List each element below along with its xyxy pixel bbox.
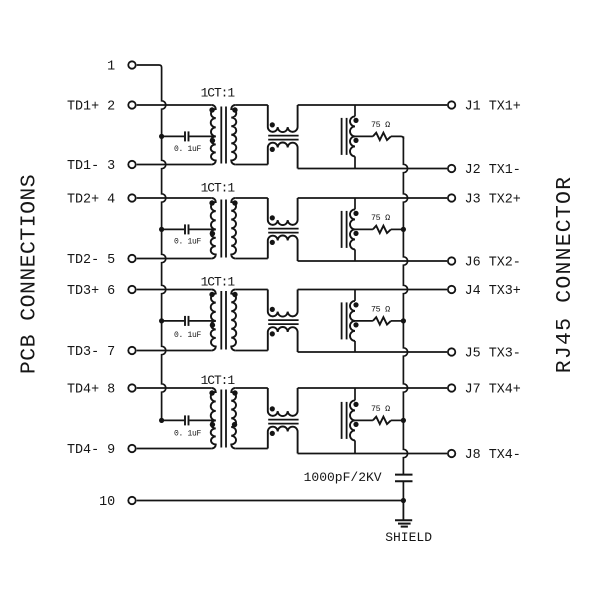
capacitor C5 1000pF/2KV [395,474,413,476]
transformer T1 secondary phase dot [232,107,237,112]
wire choke L1 to TX1+ pin [298,104,447,106]
transformer T4 secondary winding [231,388,236,449]
transformer T1 primary center-tap dot [210,138,215,143]
svg-text:0. 1uF: 0. 1uF [174,238,202,247]
wire rail to capacitor C1 [162,135,185,137]
pin J1 terminal [448,101,455,108]
svg-text:TD3- 7: TD3- 7 [67,345,115,360]
svg-text:1000pF/2KV: 1000pF/2KV [304,470,382,485]
termination winding W1 phase dot upper [353,118,358,123]
capacitor C4 0.1uF [184,415,186,425]
svg-text:0. 1uF: 0. 1uF [174,331,202,340]
transformer T4 secondary phase dot [232,390,237,395]
wire T2 secondary top to choke L2 [235,197,268,199]
center-tap bias rail (vertical, from pin 1) [162,68,166,421]
wire TD1+ pin to transformer T1 primary top [137,104,212,106]
wire pin 10 to shield node [137,500,404,502]
wire resistor R2 to termination rail [391,228,404,230]
wire choke L3 to TX3- pin [298,351,447,353]
termination winding W3 phase dot lower [353,322,358,327]
svg-text:J1 TX1+: J1 TX1+ [465,100,521,115]
transformer T4 secondary center-tap dot [232,422,237,427]
choke L2 bottom winding phase dot [270,240,275,245]
wire W3 center tap to resistor R3 [355,320,373,322]
transformer T2 primary phase dot [209,200,214,205]
svg-text:1CT:1: 1CT:1 [201,181,236,196]
choke L4 bottom winding phase dot [270,431,275,436]
svg-text:J3 TX2+: J3 TX2+ [465,193,521,208]
transformer T4 primary winding [211,388,216,449]
wire capacitor C3 to T3 primary center tap [189,320,215,322]
wire T1 secondary bottom to choke L1 [235,164,268,166]
left side caption PCB CONNECTIONS [17,174,41,374]
transformer T2 secondary winding [231,198,236,259]
transformer T4 primary phase dot [209,390,214,395]
wire TD3- pin to transformer T3 primary bottom [137,350,212,352]
pin 10 terminal [128,497,135,504]
wire T3 secondary top to choke L3 [235,289,268,291]
svg-text:TD4+ 8: TD4+ 8 [67,383,115,398]
termination winding W4 [350,400,355,440]
termination winding W4 lead from TX4+ line [354,388,356,400]
termination winding W2 core [341,211,343,248]
transformer T2 core [220,200,222,258]
wire TD2+ pin to transformer T2 primary top [137,197,212,199]
wire T4 secondary top to choke L4 [235,387,268,389]
termination winding W2 phase dot lower [353,231,358,236]
svg-text:TD2- 5: TD2- 5 [67,253,115,268]
ground shield symbol [402,501,404,520]
choke L3 core [268,319,298,321]
termination winding W2 lead to TX2- line [354,249,356,261]
choke L3 bottom winding phase dot [270,331,275,336]
choke L3 top winding phase dot [270,307,275,312]
choke L1 bottom winding [268,143,298,169]
junction node resistor R3 on termination rail [401,318,406,323]
choke L2 top winding phase dot [270,215,275,220]
junction node cap C4 on bias rail [159,418,164,423]
wire rail to capacitor C2 [162,228,185,230]
wire resistor R3 to termination rail [391,320,404,322]
transformer T2 primary winding [211,198,216,259]
termination winding W3 [350,301,355,341]
svg-text:1CT:1: 1CT:1 [201,275,236,290]
junction node cap C1 on bias rail [159,134,164,139]
pin J8 terminal [448,450,455,457]
pin 8 terminal [128,384,135,391]
wire choke L2 to TX2+ pin [298,197,447,199]
svg-text:J6 TX2-: J6 TX2- [465,256,521,271]
choke L3 top winding [268,290,298,317]
svg-text:75 Ω: 75 Ω [371,404,390,414]
right side caption RJ45 CONNECTOR [553,176,577,373]
wire capacitor C4 to T4 primary center tap [189,419,215,421]
termination winding W3 lead from TX3+ line [354,290,356,301]
transformer T3 secondary winding [231,290,236,351]
wire resistor R1 to termination rail [391,136,404,139]
choke L1 top winding [268,105,298,132]
transformer T3 primary phase dot [209,292,214,297]
svg-text:75 Ω: 75 Ω [371,120,390,130]
transformer T1 primary phase dot [209,107,214,112]
wire choke L3 to TX3+ pin [298,289,447,291]
termination winding W1 lead to TX1- line [354,156,356,168]
resistor R2 75 ohm [373,226,391,233]
svg-text:J7 TX4+: J7 TX4+ [465,383,521,398]
wire W2 center tap to resistor R2 [355,228,373,230]
wire T3 secondary bottom to choke L3 [235,350,268,352]
wire choke L2 to TX2- pin [298,260,447,262]
choke L4 core [268,419,298,421]
junction node resistor R4 on termination rail [401,418,406,423]
svg-text:75 Ω: 75 Ω [371,304,390,314]
svg-text:TD1- 3: TD1- 3 [67,159,115,174]
wire resistor R4 to termination rail [391,419,404,421]
svg-text:TD1+ 2: TD1+ 2 [67,100,115,115]
choke L3 bottom winding [268,327,298,352]
choke L1 top winding phase dot [270,122,275,127]
svg-text:1CT:1: 1CT:1 [201,86,236,101]
wire choke L4 to TX4+ pin [298,387,447,389]
wire rail to capacitor C4 [162,419,185,421]
transformer T2 secondary phase dot [232,200,237,205]
termination winding W4 core [341,402,343,439]
wire pin 1 to center-tap rail [137,65,162,68]
wire choke L1 to TX1- pin [298,168,447,170]
choke L4 top winding [268,388,298,416]
wire choke L4 to TX4- pin [298,453,447,455]
choke L4 top winding phase dot [270,406,275,411]
transformer T3 core [220,291,222,350]
svg-text:SHIELD: SHIELD [385,530,432,545]
transformer T4 core [220,390,222,448]
wire TD1- pin to transformer T1 primary bottom [137,164,212,166]
wire rail to capacitor C3 [162,320,185,322]
svg-text:PCB CONNECTIONS: PCB CONNECTIONS [17,174,41,374]
choke L2 core [268,228,298,230]
choke L4 bottom winding [268,427,298,454]
resistor R4 75 ohm [373,417,391,424]
svg-text:10: 10 [99,495,115,510]
junction node resistor R2 on termination rail [401,227,406,232]
pin 2 terminal [128,101,135,108]
transformer T4 primary center-tap dot [210,422,215,427]
junction node cap C3 on bias rail [159,318,164,323]
svg-text:75 Ω: 75 Ω [371,213,390,223]
transformer T1 secondary winding [231,105,236,165]
pin J4 terminal [448,286,455,293]
capacitor C2 0.1uF [184,224,186,234]
wire T2 secondary bottom to choke L2 [235,258,268,260]
pin 7 terminal [128,347,135,354]
wire T4 secondary bottom to choke L4 [235,448,268,450]
wire TD4+ pin to transformer T4 primary top [137,387,212,389]
transformer T3 primary center-tap dot [210,322,215,327]
pin 9 terminal [128,445,135,452]
svg-text:J4 TX3+: J4 TX3+ [465,284,521,299]
resistor R3 75 ohm [373,317,391,324]
termination winding W3 lead to TX3- line [354,341,356,352]
termination winding W1 core [341,118,343,155]
termination winding W2 lead from TX2+ line [354,198,356,209]
wire capacitor C2 to T2 primary center tap [189,228,215,230]
resistor R1 75 ohm [373,133,391,140]
termination winding W1 phase dot lower [353,138,358,143]
wire W4 center tap to resistor R4 [355,419,373,421]
wire T1 secondary top to choke L1 [235,104,268,106]
choke L1 bottom winding phase dot [270,147,275,152]
pin J6 terminal [448,257,455,264]
transformer T2 primary center-tap dot [210,231,215,236]
pin 6 terminal [128,286,135,293]
capacitor C1 0.1uF [184,131,186,141]
pin J5 terminal [448,348,455,355]
junction node cap C2 on bias rail [159,227,164,232]
termination winding W2 phase dot upper [353,211,358,216]
svg-text:0. 1uF: 0. 1uF [174,145,202,154]
svg-text:J5 TX3-: J5 TX3- [465,347,521,362]
termination winding W1 lead from TX1+ line [354,105,356,116]
svg-text:J8 TX4-: J8 TX4- [465,448,521,463]
choke L2 bottom winding [268,236,298,261]
wire TD2- pin to transformer T2 primary bottom [137,258,212,260]
svg-text:J2 TX1-: J2 TX1- [465,163,521,178]
svg-text:TD4- 9: TD4- 9 [67,443,115,458]
svg-text:RJ45 CONNECTOR: RJ45 CONNECTOR [553,176,577,373]
pin J7 terminal [448,384,455,391]
termination winding W3 phase dot upper [353,302,358,307]
svg-text:1: 1 [107,60,115,75]
capacitor C3 0.1uF [184,316,186,326]
transformer T1 primary winding [211,105,216,165]
svg-text:TD2+ 4: TD2+ 4 [67,193,115,208]
transformer T3 primary winding [211,290,216,351]
pin 5 terminal [128,255,135,262]
termination winding W1 [350,116,355,156]
pin J3 terminal [448,194,455,201]
pin 1 terminal [128,61,135,68]
wire capacitor C1 to T1 primary center tap [189,135,215,137]
pin J2 terminal [448,165,455,172]
termination winding W4 lead to TX4- line [354,440,356,453]
choke L2 top winding [268,198,298,225]
svg-text:TD3+ 6: TD3+ 6 [67,284,115,299]
wire W1 center tap to resistor R1 [355,135,373,137]
transformer T1 core [220,107,222,164]
choke L1 core [268,135,298,137]
transformer T3 secondary phase dot [232,292,237,297]
termination winding W4 phase dot lower [353,422,358,427]
wire TD3+ pin to transformer T3 primary top [137,289,212,291]
termination winding W3 core [341,302,343,339]
wire TD4- pin to transformer T4 primary bottom [137,448,212,450]
wire cap C5 to shield junction [402,481,404,500]
svg-text:1CT:1: 1CT:1 [201,373,236,388]
termination winding W2 [350,209,355,249]
pin 3 terminal [128,161,135,168]
svg-text:0. 1uF: 0. 1uF [174,430,202,439]
chassis termination rail (vertical) [403,136,407,474]
pin 4 terminal [128,194,135,201]
termination winding W4 phase dot upper [353,402,358,407]
junction shield node [401,498,406,503]
